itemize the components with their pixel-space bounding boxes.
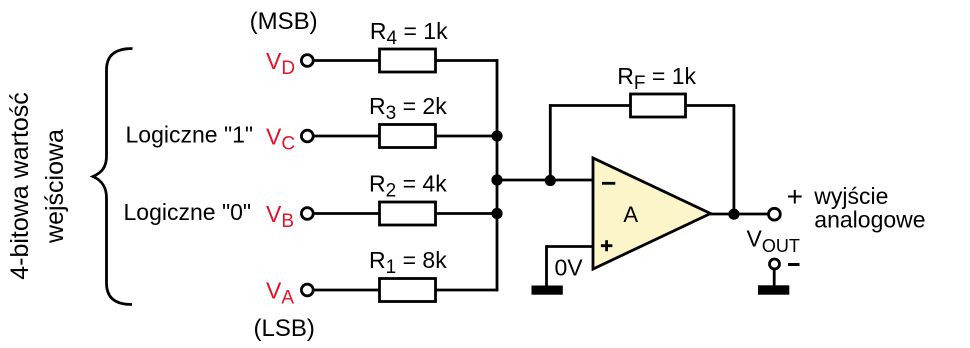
resistor R2 — [380, 202, 436, 225]
wire VB to R2 — [314, 212, 381, 215]
wire non-inverting input to ground — [547, 247, 595, 287]
svg-text:Logiczne "1": Logiczne "1" — [126, 121, 254, 147]
svg-text:wyjście: wyjście — [813, 183, 888, 209]
junction output/feedback — [728, 209, 739, 220]
wire feedback right vertical — [733, 106, 736, 215]
resistor R4 — [380, 49, 436, 72]
terminal VOUT — [769, 208, 781, 220]
wire R4 to bus — [436, 59, 499, 62]
terminal VA — [301, 284, 313, 296]
label wyjście analogowe — [813, 183, 925, 233]
wire op-amp output — [709, 213, 769, 216]
resistor R1 — [380, 279, 436, 302]
brace grouping the 4 input bits — [93, 49, 133, 305]
svg-text:4-bitowa wartość: 4-bitowa wartość — [6, 92, 34, 280]
svg-text:wejściowa: wejściowa — [41, 129, 69, 244]
terminal VB — [301, 208, 313, 220]
terminal output minus — [770, 259, 780, 269]
wire bus to op-amp inverting input — [496, 179, 594, 182]
wire R3 to bus — [436, 135, 499, 138]
junction on bus at VC row — [491, 130, 502, 141]
op-amp non-inverting pin mark (+) — [601, 240, 613, 251]
wire VA to R1 — [314, 289, 381, 292]
svg-text:Logiczne "0": Logiczne "0" — [124, 199, 252, 225]
svg-text:0V: 0V — [555, 255, 584, 281]
wire R1 to bus — [436, 289, 499, 292]
terminal VD — [301, 55, 313, 67]
wire feedback top right segment — [686, 104, 736, 107]
wire summing bus (vertical) — [496, 59, 499, 291]
label - (output polarity) — [788, 263, 800, 266]
resistor R3 — [380, 125, 436, 148]
wire VC to R3 — [314, 135, 381, 138]
svg-text:analogowe: analogowe — [814, 207, 925, 233]
wire R2 to bus — [436, 212, 499, 215]
ground bar at output — [758, 285, 789, 294]
wire feedback left vertical — [549, 104, 552, 180]
op-amp inverting pin mark (-) — [602, 182, 615, 185]
svg-text:+: + — [787, 181, 803, 212]
junction feedback tap — [545, 175, 556, 186]
wire minus terminal to ground — [773, 270, 776, 287]
ground bar at 0V — [532, 286, 563, 295]
terminal VC — [301, 130, 313, 142]
junction on bus at VB row — [491, 208, 502, 219]
wire feedback top left segment — [549, 104, 632, 107]
label: 4-bitowa wartość wejściowa (rotated) — [6, 92, 69, 280]
svg-text:(MSB): (MSB) — [250, 8, 318, 35]
junction on bus at inverting-input row — [491, 174, 502, 185]
wire VD to R4 — [314, 59, 381, 62]
svg-text:(LSB): (LSB) — [254, 315, 315, 342]
op-amp A — [593, 158, 711, 269]
svg-text:A: A — [623, 202, 638, 227]
resistor RF — [631, 94, 686, 117]
